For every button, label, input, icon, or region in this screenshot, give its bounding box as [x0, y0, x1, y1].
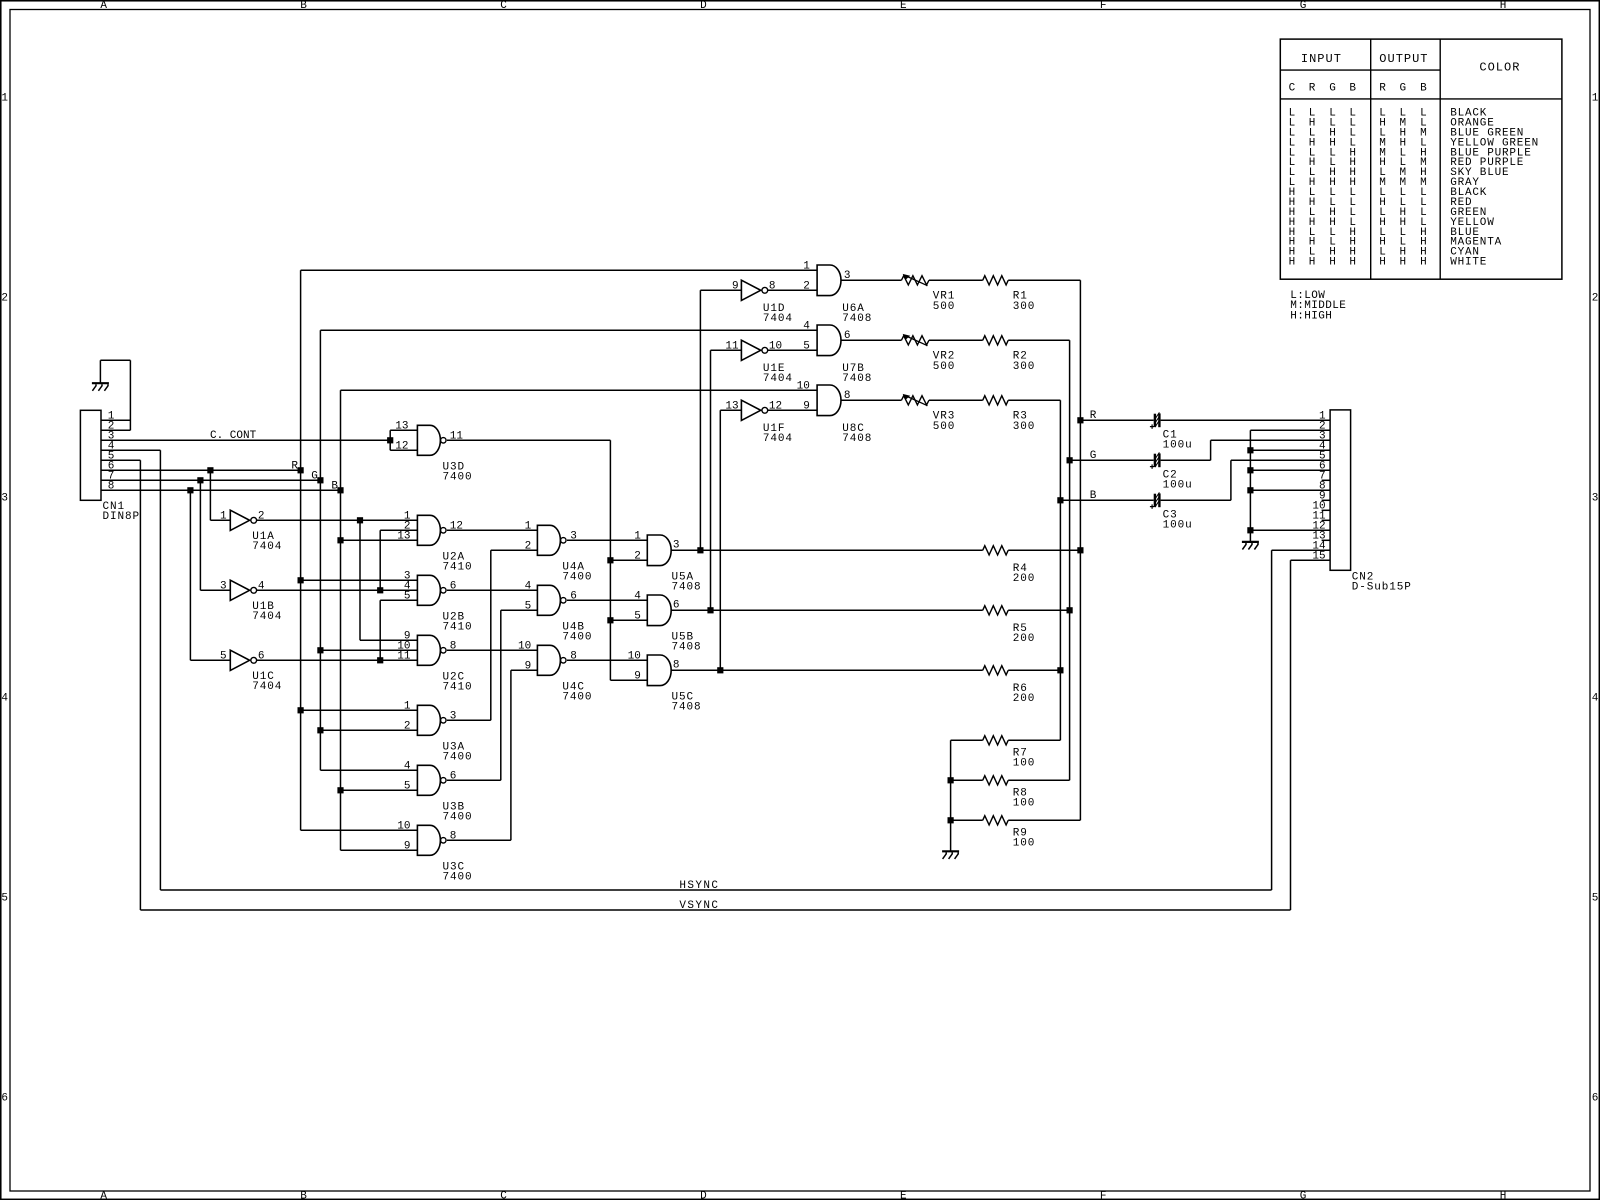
- svg-text:7410: 7410: [443, 682, 473, 694]
- svg-text:13: 13: [395, 421, 408, 433]
- svg-text:10: 10: [518, 641, 531, 653]
- svg-text:8: 8: [769, 281, 776, 293]
- svg-text:300: 300: [1013, 421, 1036, 433]
- svg-text:B: B: [300, 1191, 307, 1200]
- svg-text:7400: 7400: [443, 872, 473, 884]
- svg-text:C: C: [500, 0, 507, 12]
- svg-text:200: 200: [1013, 693, 1036, 705]
- svg-text:DIN8P: DIN8P: [103, 511, 141, 523]
- svg-text:A: A: [100, 1191, 107, 1200]
- svg-text:G: G: [1329, 83, 1336, 95]
- svg-text:G: G: [1300, 0, 1307, 12]
- svg-text:2: 2: [258, 511, 265, 523]
- svg-text:7408: 7408: [672, 702, 702, 714]
- svg-text:9: 9: [732, 281, 739, 293]
- svg-text:H: H: [1379, 257, 1386, 269]
- svg-text:H: H: [1309, 257, 1316, 269]
- svg-text:12: 12: [769, 401, 782, 413]
- svg-text:2: 2: [1592, 292, 1599, 304]
- svg-text:1: 1: [634, 531, 641, 543]
- svg-text:7400: 7400: [443, 472, 473, 484]
- svg-text:10: 10: [797, 381, 810, 393]
- svg-text:7404: 7404: [252, 541, 282, 553]
- svg-text:7404: 7404: [763, 313, 793, 325]
- svg-text:100u: 100u: [1163, 520, 1193, 532]
- svg-text:7400: 7400: [562, 572, 592, 584]
- svg-text:100u: 100u: [1163, 480, 1193, 492]
- svg-text:5: 5: [803, 341, 810, 353]
- svg-text:11: 11: [725, 341, 739, 353]
- svg-text:4: 4: [1592, 692, 1599, 704]
- svg-text:OUTPUT: OUTPUT: [1379, 52, 1428, 66]
- svg-text:4: 4: [525, 581, 532, 593]
- svg-text:1: 1: [803, 261, 810, 273]
- svg-text:500: 500: [933, 361, 956, 373]
- svg-text:R: R: [1090, 410, 1097, 422]
- svg-text:G: G: [1400, 83, 1407, 95]
- svg-text:H: H: [1400, 257, 1407, 269]
- svg-text:7408: 7408: [842, 313, 872, 325]
- svg-text:7410: 7410: [443, 562, 473, 574]
- svg-text:3: 3: [220, 581, 227, 593]
- svg-text:C. CONT: C. CONT: [210, 430, 257, 442]
- svg-text:HSYNC: HSYNC: [679, 880, 719, 892]
- svg-text:INPUT: INPUT: [1301, 52, 1342, 66]
- svg-text:H: H: [1289, 257, 1296, 269]
- svg-text:5: 5: [1, 892, 8, 904]
- svg-text:H: H: [1349, 257, 1356, 269]
- svg-text:11: 11: [397, 651, 411, 663]
- svg-text:4: 4: [803, 321, 810, 333]
- svg-text:D: D: [700, 0, 707, 12]
- svg-text:E: E: [900, 0, 907, 12]
- svg-text:100: 100: [1013, 798, 1036, 810]
- svg-text:5: 5: [1592, 892, 1599, 904]
- svg-text:B: B: [1420, 83, 1427, 95]
- svg-text:C: C: [1289, 83, 1296, 95]
- svg-text:500: 500: [933, 301, 956, 313]
- svg-text:2: 2: [803, 281, 810, 293]
- svg-text:B: B: [331, 480, 338, 492]
- svg-text:E: E: [900, 1191, 907, 1200]
- svg-text:9: 9: [803, 401, 810, 413]
- svg-text:4: 4: [634, 591, 641, 603]
- svg-text:100: 100: [1013, 758, 1036, 770]
- svg-text:13: 13: [725, 401, 738, 413]
- svg-text:12: 12: [395, 441, 408, 453]
- svg-text:4: 4: [1, 692, 8, 704]
- svg-text:7400: 7400: [562, 632, 592, 644]
- svg-text:1: 1: [1592, 92, 1599, 104]
- svg-text:B: B: [1090, 490, 1097, 502]
- svg-text:C: C: [500, 1191, 507, 1200]
- svg-text:VSYNC: VSYNC: [679, 900, 719, 912]
- svg-text:7400: 7400: [443, 812, 473, 824]
- svg-text:7404: 7404: [252, 681, 282, 693]
- svg-text:6: 6: [1592, 1092, 1599, 1104]
- svg-text:6: 6: [258, 651, 265, 663]
- svg-text:10: 10: [628, 651, 641, 663]
- svg-text:B: B: [300, 0, 307, 12]
- svg-text:G: G: [311, 470, 318, 482]
- svg-text:7408: 7408: [842, 433, 872, 445]
- svg-text:1: 1: [1, 92, 8, 104]
- svg-text:200: 200: [1013, 573, 1036, 585]
- svg-text:H:HIGH: H:HIGH: [1290, 310, 1332, 322]
- svg-text:4: 4: [258, 581, 265, 593]
- svg-text:R: R: [1379, 83, 1386, 95]
- svg-text:H: H: [1500, 0, 1507, 12]
- svg-text:G: G: [1090, 450, 1097, 462]
- svg-text:5: 5: [220, 651, 227, 663]
- svg-text:7400: 7400: [443, 752, 473, 764]
- svg-text:100: 100: [1013, 838, 1036, 850]
- svg-text:F: F: [1100, 1191, 1107, 1200]
- svg-text:F: F: [1100, 0, 1107, 12]
- svg-text:10: 10: [769, 341, 782, 353]
- svg-text:H: H: [1500, 1191, 1507, 1200]
- svg-text:5: 5: [404, 591, 411, 603]
- svg-text:300: 300: [1013, 361, 1036, 373]
- svg-text:H: H: [1329, 257, 1336, 269]
- svg-text:D-Sub15P: D-Sub15P: [1352, 582, 1412, 594]
- svg-text:500: 500: [933, 421, 956, 433]
- svg-text:7404: 7404: [763, 433, 793, 445]
- svg-text:300: 300: [1013, 301, 1036, 313]
- svg-text:G: G: [1300, 1191, 1307, 1200]
- svg-text:200: 200: [1013, 633, 1036, 645]
- svg-text:7408: 7408: [672, 642, 702, 654]
- svg-text:R: R: [1309, 83, 1316, 95]
- svg-text:R: R: [291, 460, 298, 472]
- svg-text:2: 2: [1, 292, 8, 304]
- svg-text:3: 3: [1, 492, 8, 504]
- svg-text:7408: 7408: [842, 373, 872, 385]
- svg-text:1: 1: [525, 521, 532, 533]
- svg-text:A: A: [100, 0, 107, 12]
- svg-text:7404: 7404: [252, 611, 282, 623]
- svg-text:3: 3: [1592, 492, 1599, 504]
- svg-text:100u: 100u: [1163, 440, 1193, 452]
- svg-text:7408: 7408: [672, 582, 702, 594]
- svg-text:7410: 7410: [443, 622, 473, 634]
- svg-text:B: B: [1349, 83, 1356, 95]
- svg-text:D: D: [700, 1191, 707, 1200]
- svg-text:7400: 7400: [562, 692, 592, 704]
- svg-text:H: H: [1420, 257, 1427, 269]
- svg-text:1: 1: [220, 511, 227, 523]
- svg-text:COLOR: COLOR: [1479, 61, 1520, 75]
- svg-text:7404: 7404: [763, 373, 793, 385]
- svg-text:6: 6: [1, 1092, 8, 1104]
- svg-text:WHITE: WHITE: [1450, 257, 1487, 269]
